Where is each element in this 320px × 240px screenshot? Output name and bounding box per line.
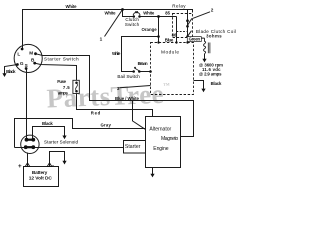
wire solenoid to starter [15, 147, 124, 149]
node terminal G [16, 63, 19, 66]
ground arrow black left [2, 73, 6, 77]
svg-text:Blue / White: Blue / White [115, 96, 140, 101]
relay contact b [186, 25, 189, 28]
engine box [146, 117, 181, 168]
wire solenoid black ground [33, 127, 65, 140]
svg-text:Red: Red [91, 111, 101, 116]
fuse terminal top [75, 81, 78, 84]
fuse F1 7.5A [73, 80, 79, 93]
battery terminal post negative [47, 163, 52, 167]
relay contact c [186, 35, 189, 38]
ground arrow engine [150, 174, 154, 178]
svg-text:Starter Switch: Starter Switch [44, 56, 79, 61]
svg-text:Starter Solenoid: Starter Solenoid [44, 139, 78, 144]
svg-text:Bail Switch: Bail Switch [117, 74, 140, 79]
svg-text:Orange: Orange [142, 27, 158, 32]
node terminal M [34, 52, 37, 55]
bail switch contact left [132, 70, 135, 73]
wire fuse to engine red [77, 94, 153, 117]
wire white to bail switch [122, 37, 159, 72]
svg-text:S: S [25, 63, 28, 68]
svg-text:Battery: Battery [32, 170, 48, 176]
bail switch blade [134, 67, 139, 71]
wire relay blade [188, 18, 192, 24]
svg-text:White: White [143, 10, 155, 15]
svg-text:TM: TM [163, 82, 170, 87]
svg-text:Starter: Starter [125, 144, 141, 150]
svg-text:M: M [29, 51, 33, 56]
ground arrow clutch coil [202, 59, 206, 63]
svg-text:7.5: 7.5 [63, 85, 70, 90]
svg-text:White: White [112, 51, 121, 56]
wire blue/white M terminal to magneto [36, 54, 194, 137]
svg-text:White: White [105, 10, 117, 15]
wire orange vertical [158, 17, 160, 43]
wire battery negative ground [50, 152, 65, 167]
svg-text:Fuse: Fuse [57, 79, 66, 84]
node module terminal 1 [157, 41, 159, 43]
wire engine ground [152, 168, 154, 175]
svg-text:Module: Module [161, 49, 179, 55]
relay contact a [186, 19, 189, 22]
blade clutch coil L1 3 ohms [204, 38, 210, 59]
wire gray solenoid to engine [15, 119, 146, 148]
relay box dashed [173, 14, 193, 38]
node module terminal left [149, 70, 152, 73]
svg-text:@ 2.9 amps: @ 2.9 amps [199, 72, 222, 77]
wire bail switch to module [140, 71, 151, 73]
svg-text:1: 1 [100, 36, 103, 41]
ground arrow solenoid black [62, 136, 66, 140]
svg-text:amps: amps [58, 91, 69, 96]
fuse terminal bottom [75, 90, 78, 93]
svg-text:G: G [20, 61, 24, 66]
svg-text:PartsTree: PartsTree [46, 79, 164, 114]
wire G terminal ground [5, 65, 18, 75]
svg-text:Relay: Relay [172, 4, 186, 9]
svg-text:Engine: Engine [153, 146, 168, 152]
wire pointer 1 diagonal [105, 10, 123, 37]
ground arrow module black [201, 89, 205, 93]
svg-text:Magneto: Magneto [161, 136, 178, 142]
node terminal B [33, 62, 36, 65]
ground arrow battery negative [62, 161, 66, 165]
svg-text:Blue: Blue [165, 37, 174, 42]
starter solenoid circle [21, 135, 39, 153]
wire drop to clutch switch [123, 10, 134, 17]
node terminal L [21, 48, 24, 51]
wire branch to engine alternator [133, 101, 146, 130]
module box dashed [151, 43, 194, 95]
svg-text:White: White [66, 4, 78, 9]
svg-text:Brown: Brown [138, 61, 148, 66]
node junction orange top [157, 15, 160, 18]
svg-text:3ohms: 3ohms [206, 33, 222, 38]
node terminal S [25, 67, 28, 70]
svg-text:Black: Black [211, 81, 222, 86]
starter switch circle [14, 44, 42, 72]
watermark PartsTree [46, 79, 171, 114]
solenoid top contact bar [25, 138, 36, 142]
svg-text:12 Volt DC: 12 Volt DC [29, 175, 53, 181]
starter box [124, 141, 146, 154]
relay mechanical link dashed [177, 31, 187, 33]
svg-text:+: + [18, 163, 22, 170]
wire clutch switch to relay coil 85 [140, 16, 177, 18]
battery B1 12V box [24, 167, 59, 187]
clutch switch contact right [138, 15, 141, 18]
wire white top from L terminal to relay corner [23, 10, 193, 49]
svg-text:2: 2 [211, 7, 214, 12]
green label box [187, 37, 201, 42]
svg-text:Switch: Switch [125, 22, 140, 27]
wire pointer 2 diagonal [193, 12, 210, 18]
wire relay coil 85-86 to module [176, 17, 178, 43]
svg-text:L: L [17, 51, 20, 56]
wire solenoid to battery positive [27, 153, 29, 167]
bail switch contact right [138, 70, 141, 73]
clutch switch bridge [133, 12, 140, 15]
svg-text:Green: Green [189, 37, 201, 42]
node junction white top [121, 8, 124, 11]
svg-text:85: 85 [165, 10, 170, 15]
clutch switch contact left [133, 15, 136, 18]
svg-text:3: 3 [117, 86, 120, 91]
node junction orange white [157, 35, 160, 38]
wire green to clutch coil [188, 37, 205, 39]
svg-text:Gray: Gray [101, 123, 112, 128]
wire relay blade lower [188, 31, 192, 36]
solenoid bottom contact bar [24, 145, 35, 149]
wire module ground black [194, 81, 204, 89]
svg-text:Black: Black [42, 121, 53, 126]
wire S terminal to solenoid [26, 69, 28, 140]
node module terminal 3 [186, 41, 188, 43]
wire seat connector 3 [120, 86, 151, 88]
wire relay contact column [187, 10, 189, 43]
svg-text:Black: Black [6, 69, 16, 74]
node module terminal 2 [175, 41, 177, 43]
battery terminal post positive [25, 163, 30, 167]
wire red B terminal to fuse [35, 63, 77, 80]
svg-text:Alternator: Alternator [149, 127, 171, 133]
